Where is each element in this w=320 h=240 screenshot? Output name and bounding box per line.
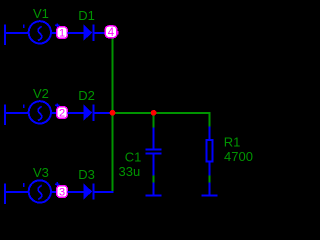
wire: corner down to R1: [209, 113, 211, 127]
voltage source V2: [4, 101, 59, 125]
node 2: [57, 107, 68, 120]
ground (R1): [201, 183, 217, 196]
node 1: [57, 27, 68, 40]
capacitor C1: [145, 128, 161, 176]
node 3: [57, 186, 68, 199]
voltage source V3: [4, 180, 59, 204]
wire: R1 to ground: [209, 176, 211, 183]
diode D3: [68, 183, 114, 199]
voltage source V1: [4, 21, 59, 45]
resistor R1: [207, 127, 213, 176]
wire: C1 to ground: [153, 176, 155, 183]
ground (C1): [145, 183, 161, 196]
wire: horizontal bus to R1: [113, 112, 211, 114]
svg-text:33u: 33u: [119, 164, 141, 179]
svg-text:4: 4: [108, 27, 115, 39]
svg-text:V1: V1: [33, 6, 49, 21]
junction at D2 output: [110, 110, 116, 116]
diode D1: [68, 25, 106, 41]
svg-text:3: 3: [59, 186, 65, 198]
svg-text:R1: R1: [224, 135, 241, 150]
diode D2: [68, 105, 112, 121]
svg-text:2: 2: [59, 108, 65, 120]
junction at C1 branch: [151, 110, 157, 116]
wire: node 4 vertical bus: [112, 39, 114, 191]
svg-text:V3: V3: [33, 165, 49, 180]
wire: stub down to C1: [153, 113, 155, 128]
svg-text:V2: V2: [33, 86, 49, 101]
svg-text:D2: D2: [78, 88, 95, 103]
node 4: [105, 26, 118, 39]
svg-text:C1: C1: [125, 150, 142, 165]
svg-text:4700: 4700: [224, 149, 253, 164]
svg-text:D3: D3: [78, 167, 95, 182]
svg-text:1: 1: [59, 28, 65, 40]
svg-text:D1: D1: [78, 8, 95, 23]
